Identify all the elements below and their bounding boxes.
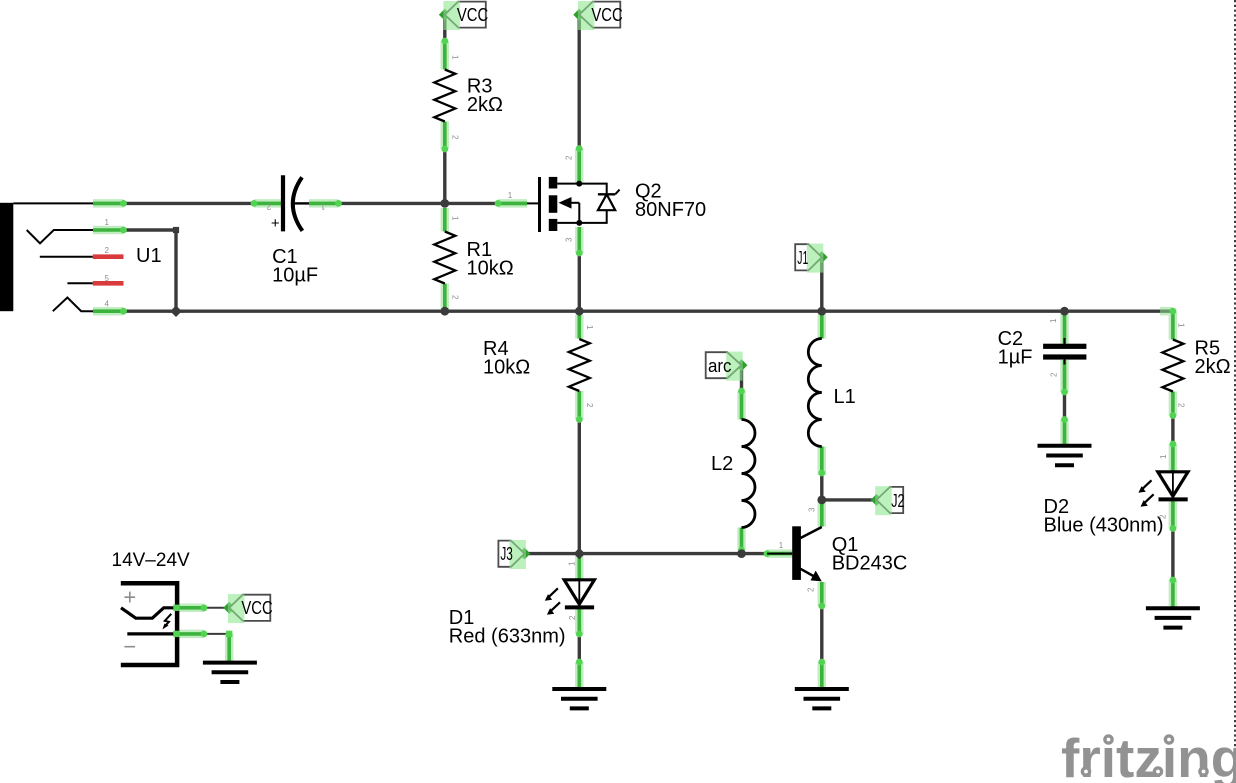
capacitor C1 left plate bbox=[281, 175, 285, 231]
svg-text:1: 1 bbox=[1159, 454, 1168, 459]
flag tip connector diamonds bbox=[439, 9, 451, 21]
capacitor C2 top plate bbox=[1064, 338, 1066, 344]
pin halo group bbox=[93, 199, 124, 208]
svg-text:3: 3 bbox=[565, 237, 574, 242]
ground D1 bbox=[552, 689, 606, 708]
U1 top lead bbox=[13, 202, 93, 204]
svg-text:1: 1 bbox=[451, 216, 460, 221]
connector U1 body bar bbox=[0, 203, 13, 311]
mosfet Q2 body diode branch bbox=[579, 184, 607, 195]
LED D1 emission arrows bbox=[549, 588, 558, 596]
ground power supply bbox=[203, 663, 257, 682]
inductor L1 coil bbox=[808, 339, 822, 447]
svg-text:+: + bbox=[123, 585, 136, 610]
mosfet Q2 source node dot bbox=[576, 220, 582, 226]
svg-text:1: 1 bbox=[1176, 323, 1185, 328]
transistor Q1 base lead bbox=[767, 553, 792, 555]
svg-text:2: 2 bbox=[568, 615, 577, 620]
mosfet Q2 channel segments bbox=[549, 177, 558, 189]
pin mark power plus at bar bbox=[173, 605, 179, 611]
svg-text:14V–24V: 14V–24V bbox=[112, 550, 191, 571]
svg-text:2: 2 bbox=[1176, 403, 1185, 408]
power supply lightning bolt bbox=[164, 614, 171, 627]
svg-text:10µF: 10µF bbox=[272, 265, 318, 287]
svg-text:L2: L2 bbox=[711, 453, 733, 475]
svg-text:2: 2 bbox=[451, 295, 460, 300]
U1 pin 2 red unconnected bbox=[93, 254, 124, 259]
svg-text:VCC: VCC bbox=[457, 5, 488, 25]
svg-text:VCC: VCC bbox=[591, 5, 622, 25]
wire VCC2 to Q2 drain bbox=[578, 15, 581, 150]
body diode triangle bbox=[598, 194, 615, 210]
wire power plus to VCC3 bbox=[204, 607, 229, 609]
svg-text:2: 2 bbox=[104, 246, 109, 255]
pin endpoint dots bbox=[120, 200, 127, 207]
svg-text:2: 2 bbox=[451, 135, 460, 140]
wire J3 to Q1 base bbox=[525, 552, 768, 555]
svg-text:2: 2 bbox=[585, 403, 594, 408]
svg-text:1µF: 1µF bbox=[998, 347, 1033, 369]
U1 pin 1 tip contact bbox=[27, 230, 93, 243]
wire arc flag to L2 bbox=[740, 365, 743, 391]
mosfet Q2 gate bar bbox=[538, 177, 541, 232]
wire VCC1 to R3 bbox=[443, 15, 446, 42]
flag highlight VCC2 bbox=[578, 1, 595, 30]
page border dashed bbox=[1234, 0, 1236, 783]
flag highlight J1 bbox=[807, 244, 824, 273]
svg-text:J2: J2 bbox=[891, 491, 904, 511]
power supply outline bbox=[121, 583, 177, 665]
ground D2 bbox=[1146, 608, 1200, 627]
wire top net C1 left bbox=[124, 202, 255, 205]
wire main bus y=311 bbox=[124, 310, 1173, 313]
net flag VCC 3 power bbox=[229, 595, 270, 621]
wire R5 to D2 bbox=[1171, 416, 1174, 445]
pin mark power minus at bar bbox=[173, 631, 179, 637]
net flag J3 bbox=[498, 541, 524, 567]
junction Q2 source bus bbox=[575, 307, 584, 316]
svg-text:1: 1 bbox=[320, 202, 325, 211]
svg-text:3: 3 bbox=[807, 507, 816, 512]
transistor Q1 collector lead bbox=[801, 527, 822, 538]
svg-text:+: + bbox=[271, 215, 280, 232]
bendpoint U1 pin1 corner bbox=[173, 227, 179, 233]
wire D1 to ground bbox=[578, 634, 581, 662]
junction J3 D1 diamond bbox=[574, 548, 586, 560]
wire J1 to bus bbox=[820, 257, 823, 311]
svg-text:1: 1 bbox=[585, 325, 594, 330]
transistor Q1 emitter lead bbox=[801, 569, 817, 578]
resistor R1 zigzag bbox=[434, 232, 455, 284]
svg-text:2: 2 bbox=[806, 587, 815, 592]
svg-text:−: − bbox=[123, 634, 136, 659]
svg-text:2: 2 bbox=[565, 155, 574, 160]
svg-text:Red (633nm): Red (633nm) bbox=[449, 626, 566, 648]
svg-text:L1: L1 bbox=[834, 386, 856, 408]
svg-text:4: 4 bbox=[104, 299, 109, 308]
wire Q2 source to bus bbox=[578, 253, 581, 311]
svg-text:J1: J1 bbox=[797, 248, 808, 268]
U1 pin 5 red unconnected bbox=[93, 281, 124, 286]
svg-text:2kΩ: 2kΩ bbox=[467, 94, 503, 116]
wire R4 to J3 node bbox=[578, 420, 581, 554]
resistor R3 zigzag bbox=[434, 70, 455, 122]
capacitor C2 bottom plate bbox=[1043, 354, 1086, 359]
svg-text:J3: J3 bbox=[500, 544, 513, 564]
svg-text:arc: arc bbox=[708, 356, 732, 376]
body diode zener tick bbox=[615, 190, 619, 195]
svg-text:2: 2 bbox=[1159, 514, 1168, 519]
svg-text:U1: U1 bbox=[136, 245, 162, 267]
body diode cathode bar bbox=[598, 193, 615, 195]
U1 pin 4 sleeve contact bbox=[53, 298, 93, 312]
LED D1 triangle bbox=[578, 580, 580, 604]
flag highlight J2 bbox=[875, 486, 892, 515]
svg-text:1: 1 bbox=[508, 191, 513, 200]
resistor R4 zigzag bbox=[569, 339, 590, 391]
transistor Q1 base bar bbox=[792, 526, 801, 580]
junction L1 bus bbox=[817, 307, 826, 316]
U1 pin 2 ring contact bbox=[40, 256, 93, 258]
wire R3 to gate node bbox=[443, 149, 446, 203]
junction L2 base node bbox=[737, 549, 746, 558]
flag highlight VCC1 bbox=[443, 1, 460, 30]
junction U1 bus diamond bbox=[170, 305, 182, 317]
wire power minus to ground bbox=[204, 634, 229, 662]
flag highlight VCC3 bbox=[228, 594, 245, 623]
ground Q1 emitter bbox=[795, 689, 849, 708]
resistor R5 zigzag bbox=[1162, 340, 1183, 392]
flag highlight J3 bbox=[509, 540, 526, 569]
power supply plus contact bbox=[121, 608, 177, 618]
net flag J1 bbox=[795, 244, 822, 270]
wire Q1 emitter to ground bbox=[820, 606, 823, 662]
junction R1 bus bbox=[440, 307, 449, 316]
U1 pin 5 contact bbox=[67, 282, 92, 284]
net flag arc bbox=[706, 352, 742, 378]
wire U1 pin1 corner bbox=[124, 230, 177, 311]
junction collector J2 node bbox=[817, 496, 826, 505]
svg-text:VCC: VCC bbox=[241, 598, 272, 618]
mosfet Q2 body arrow bbox=[559, 197, 572, 209]
wire collector node to J2 bbox=[822, 498, 877, 501]
inductor L2 coil bbox=[742, 420, 756, 528]
mosfet Q2 drain link bbox=[557, 183, 579, 185]
mosfet Q2 gate lead bbox=[527, 202, 540, 204]
svg-text:1: 1 bbox=[1049, 318, 1058, 323]
junction gate node bbox=[440, 199, 449, 208]
wire C2 to ground bbox=[1063, 392, 1066, 420]
mosfet Q2 source link bbox=[557, 222, 579, 224]
wire D2 to ground bbox=[1171, 529, 1174, 581]
svg-text:1: 1 bbox=[568, 561, 577, 566]
svg-text:BD243C: BD243C bbox=[832, 553, 908, 575]
wire L1 to Q1 collector node bbox=[820, 475, 823, 500]
svg-text:80NF70: 80NF70 bbox=[635, 199, 706, 221]
flag highlight arc bbox=[726, 352, 743, 381]
LED D1 cathode bar bbox=[565, 605, 594, 609]
svg-text:2kΩ: 2kΩ bbox=[1195, 356, 1231, 378]
power supply minus contact bbox=[127, 632, 177, 635]
svg-text:1: 1 bbox=[451, 55, 460, 60]
ground C2 bbox=[1038, 446, 1092, 465]
junction C2 bus bbox=[1060, 307, 1069, 316]
net flag VCC 2 bbox=[579, 2, 620, 28]
LED D2 cathode bar bbox=[1159, 497, 1188, 501]
capacitor C1 right lead bbox=[294, 202, 310, 204]
svg-text:1: 1 bbox=[779, 541, 784, 550]
LED D2 triangle bbox=[1172, 472, 1174, 496]
net flag VCC 1 bbox=[445, 2, 486, 28]
svg-text:2: 2 bbox=[266, 202, 271, 211]
pin core group bbox=[93, 202, 124, 206]
LED D2 emission arrows bbox=[1143, 480, 1152, 488]
transistor Q1 emitter arrowhead bbox=[811, 571, 822, 582]
mosfet Q2 drain node dot bbox=[576, 181, 582, 187]
svg-text:5: 5 bbox=[104, 274, 109, 283]
svg-text:1: 1 bbox=[104, 218, 109, 227]
capacitor C1 curved plate bbox=[293, 177, 303, 231]
wire top net C1 right to Q2 gate bbox=[339, 202, 501, 205]
svg-text:2: 2 bbox=[1049, 372, 1058, 377]
svg-text:10kΩ: 10kΩ bbox=[467, 257, 514, 279]
svg-text:Blue (430nm): Blue (430nm) bbox=[1044, 515, 1164, 537]
svg-text:10kΩ: 10kΩ bbox=[483, 357, 530, 379]
net flag J2 bbox=[877, 487, 904, 513]
